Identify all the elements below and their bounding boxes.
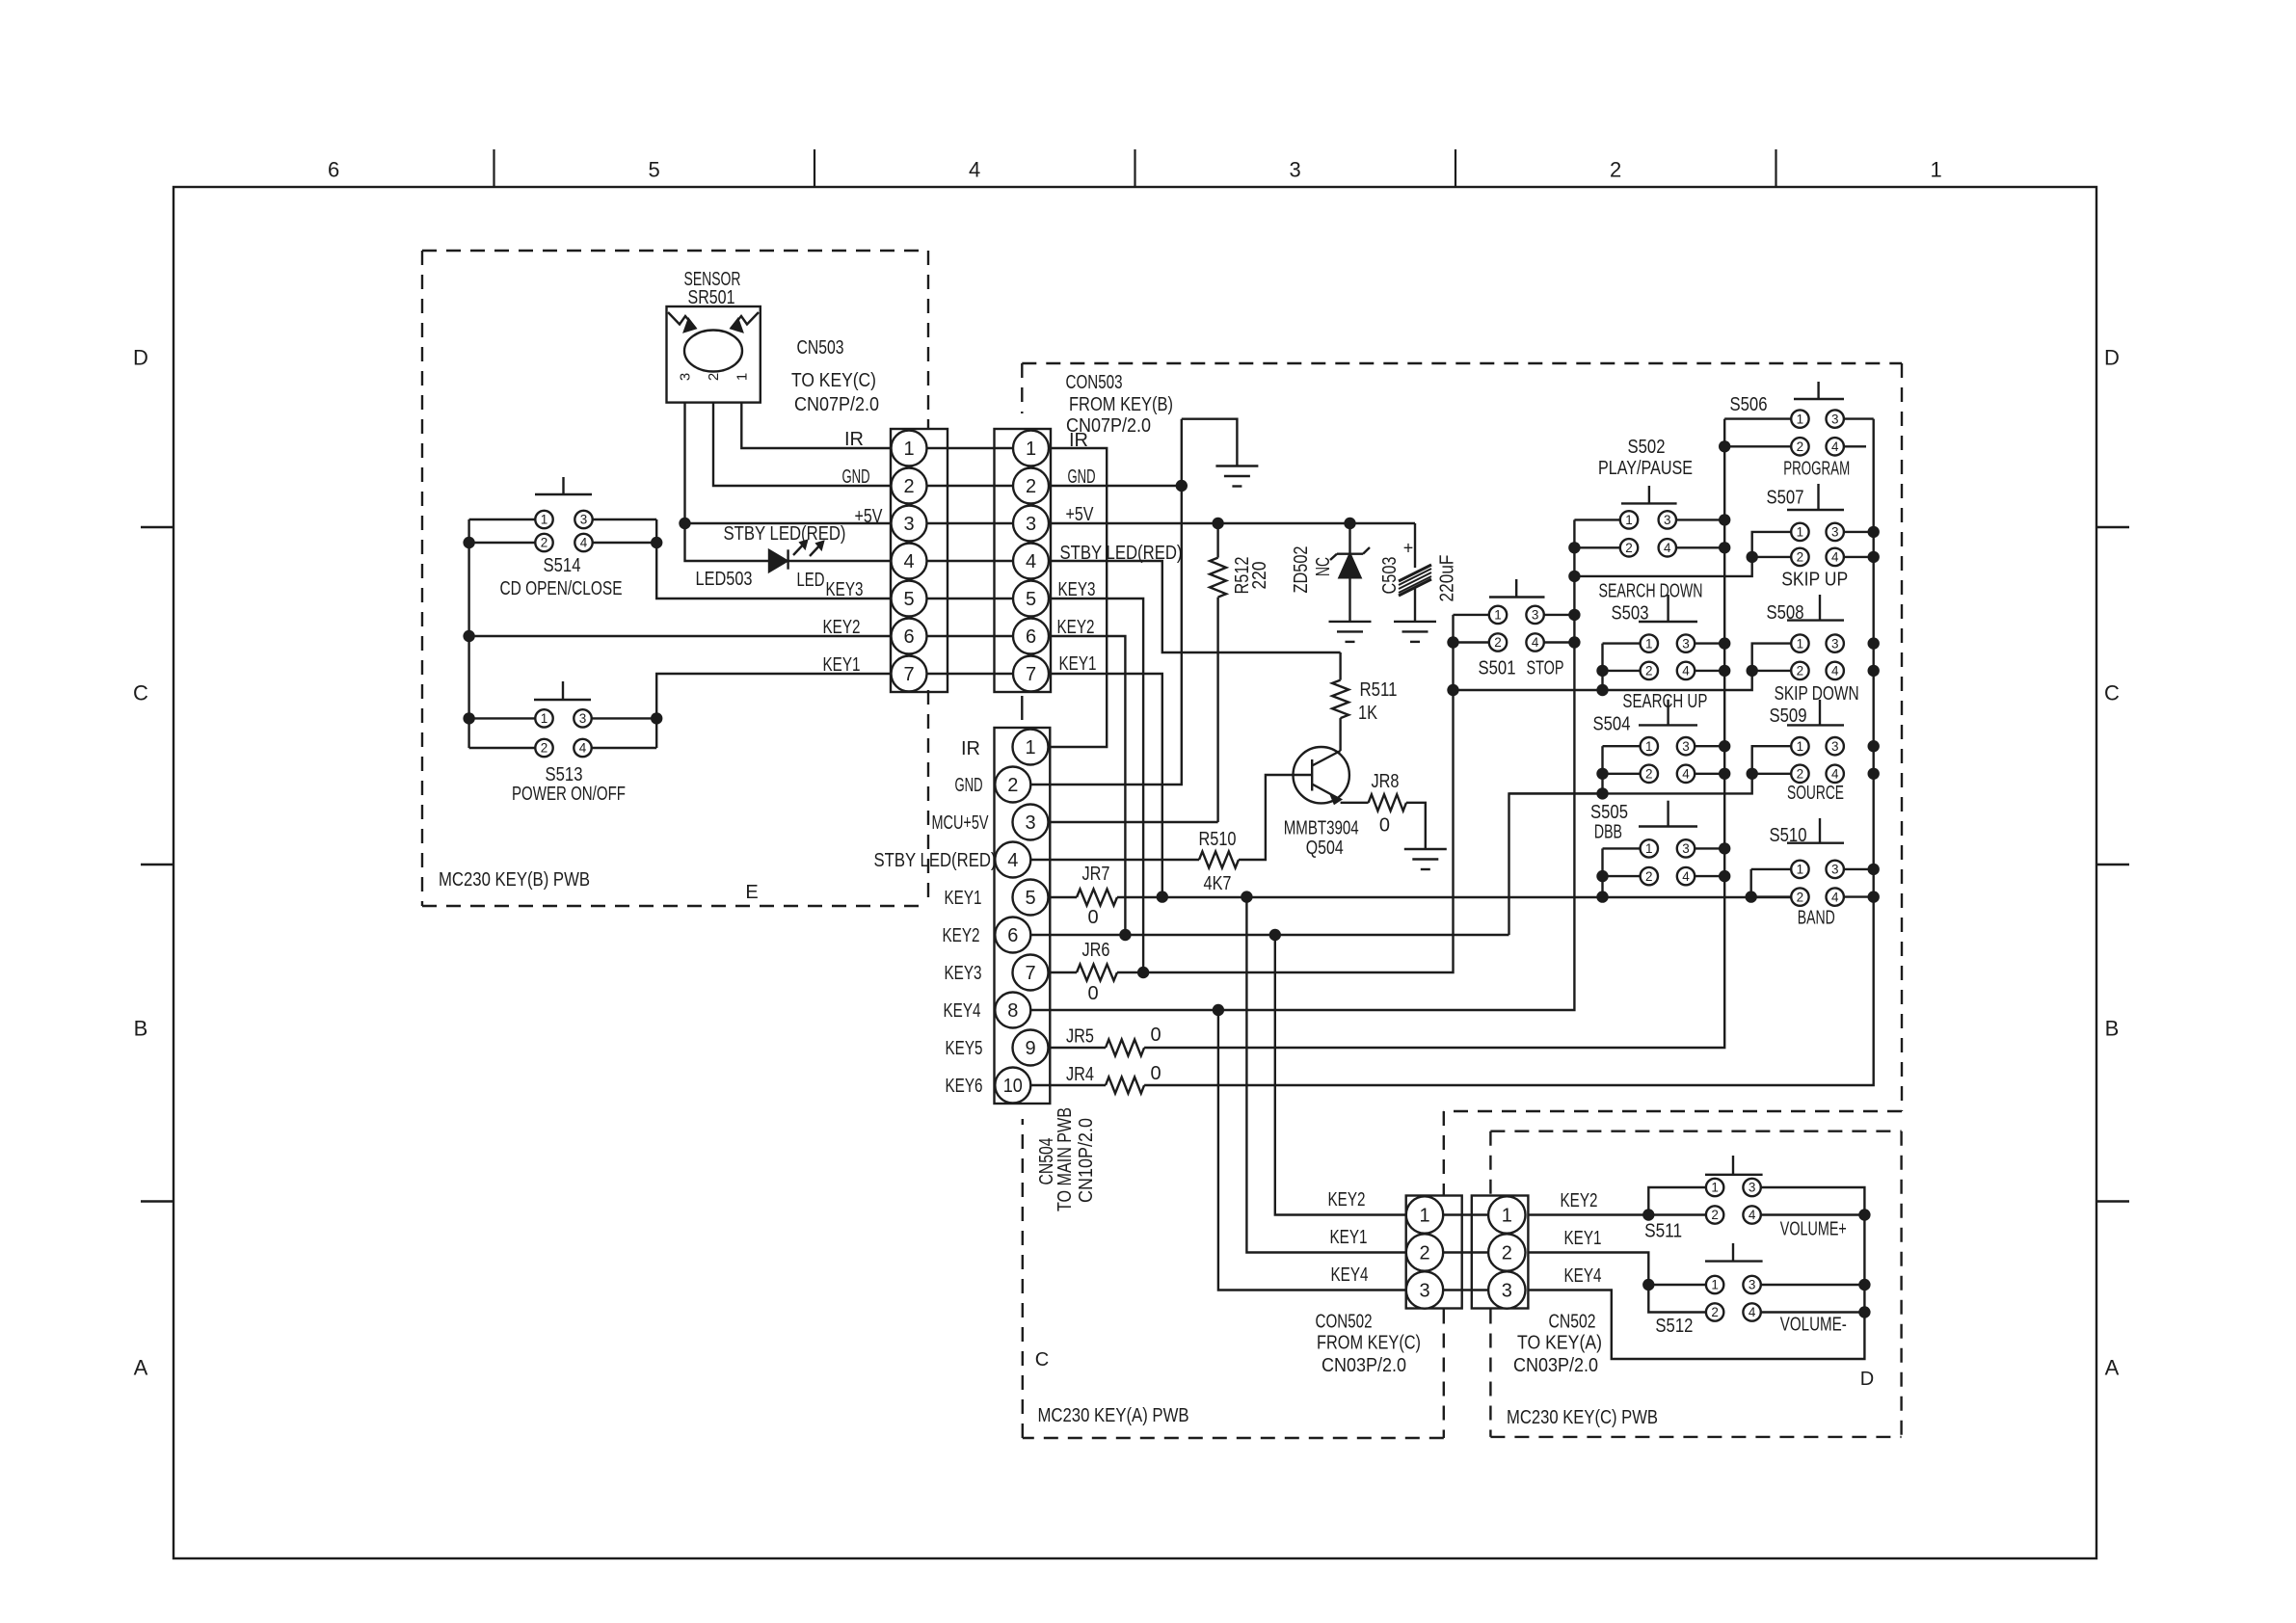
svg-text:0: 0 (1087, 983, 1098, 1004)
nodes KEY2 row (1119, 929, 1131, 941)
wire KEY1 CN503.7 to S513 (656, 674, 891, 718)
switch S511 VOLUME+ (1705, 1156, 1763, 1224)
svg-text:PROGRAM: PROGRAM (1783, 458, 1850, 479)
svg-text:4: 4 (1749, 1305, 1756, 1319)
svg-text:STOP: STOP (1527, 658, 1564, 679)
svg-text:PLAY/PAUSE: PLAY/PAUSE (1598, 458, 1693, 479)
switch S510 BAND (1787, 818, 1844, 906)
svg-text:3: 3 (1749, 1278, 1756, 1292)
svg-text:B: B (134, 1017, 148, 1041)
connector CN504 (995, 728, 1051, 1104)
svg-text:C: C (2104, 681, 2120, 705)
svg-text:4: 4 (1831, 890, 1839, 904)
resistor JR5 0 (1049, 1024, 1161, 1056)
svg-text:B: B (2105, 1017, 2120, 1041)
svg-text:JR5: JR5 (1066, 1026, 1094, 1048)
wires CON502-CN502 mating rows (1443, 1215, 1488, 1290)
svg-text:KEY4: KEY4 (1564, 1265, 1602, 1287)
svg-text:1: 1 (1797, 739, 1804, 754)
svg-text:4: 4 (579, 741, 587, 756)
svg-text:1: 1 (1797, 412, 1804, 426)
wire S514 right rail (655, 519, 657, 543)
svg-text:IR: IR (844, 429, 864, 450)
transistor Q504 MMBT3904 (1284, 747, 1359, 859)
svg-text:1: 1 (1502, 1205, 1512, 1226)
svg-text:1: 1 (1025, 737, 1035, 758)
svg-text:VOLUME-: VOLUME- (1780, 1315, 1847, 1336)
svg-text:1: 1 (1645, 841, 1653, 856)
svg-text:LED: LED (797, 570, 825, 591)
wire KEY1 CON503.7 down (1049, 674, 1162, 897)
svg-text:3: 3 (903, 514, 914, 535)
svg-text:S502: S502 (1628, 437, 1666, 458)
wire +5V CON503.3 rail (1049, 522, 1415, 524)
wire S502/S507 row (1574, 532, 1791, 576)
svg-text:SKIP UP: SKIP UP (1781, 570, 1848, 591)
svg-text:0: 0 (1087, 907, 1098, 928)
svg-text:1: 1 (1645, 739, 1653, 754)
resistor JR6 0 (1049, 940, 1117, 1004)
svg-text:S501: S501 (1479, 658, 1516, 679)
wire KEY6 row (JR4 output) (1144, 419, 1874, 1085)
svg-text:JR7: JR7 (1082, 864, 1110, 885)
node KEY3/JR6 (1137, 967, 1149, 978)
svg-text:2: 2 (1645, 664, 1653, 678)
svg-text:4: 4 (1831, 439, 1839, 454)
svg-text:0: 0 (1379, 814, 1390, 836)
svg-text:4: 4 (969, 158, 980, 182)
svg-text:C: C (1035, 1349, 1049, 1370)
svg-text:JR6: JR6 (1082, 940, 1110, 961)
node +5V / LED junction (679, 518, 690, 529)
svg-text:1: 1 (1797, 525, 1804, 540)
svg-text:KEY3: KEY3 (826, 579, 864, 600)
svg-text:S507: S507 (1767, 488, 1804, 509)
svg-text:KEY1: KEY1 (1564, 1228, 1602, 1249)
connector CN503 (891, 429, 948, 692)
svg-text:BAND: BAND (1798, 908, 1835, 929)
wire S505 jog pins 1,2 to KEY1 row (1603, 847, 1641, 849)
wire KEY5 row (JR5 output) (1144, 419, 1724, 1048)
svg-text:3: 3 (1682, 636, 1690, 651)
svg-text:4K7: 4K7 (1204, 873, 1232, 894)
svg-text:2: 2 (1797, 890, 1804, 904)
svg-text:2: 2 (1645, 767, 1653, 782)
switch S504 SEARCH UP (1639, 700, 1697, 783)
svg-text:6: 6 (903, 626, 914, 648)
nodes KEY4 column (1568, 609, 1580, 621)
svg-text:D: D (2104, 346, 2120, 370)
svg-text:MC230 KEY(C) PWB: MC230 KEY(C) PWB (1507, 1407, 1658, 1428)
wire KEY4 to CON502.3 (1218, 1010, 1406, 1290)
svg-text:GND: GND (1068, 466, 1096, 488)
svg-text:S509: S509 (1770, 705, 1807, 727)
wire LED cathode to CN503.4 (788, 560, 892, 562)
svg-text:KEY6: KEY6 (946, 1076, 983, 1097)
svg-text:CN03P/2.0: CN03P/2.0 (1322, 1355, 1406, 1376)
svg-text:2: 2 (1007, 775, 1018, 796)
svg-text:2: 2 (541, 536, 548, 550)
svg-text:S513: S513 (546, 764, 583, 785)
LED LED503 (769, 541, 823, 572)
svg-text:C: C (133, 681, 148, 705)
svg-text:2: 2 (1610, 158, 1621, 182)
wire S512 pin1 (1648, 1284, 1706, 1286)
svg-text:5: 5 (1026, 589, 1036, 610)
node S507 jog (1747, 551, 1758, 563)
wire STBY LED(RED) CON503.4 to R511 (1049, 561, 1341, 652)
nodes KEY5 column (1719, 514, 1730, 525)
svg-text:9: 9 (1025, 1038, 1035, 1059)
wire R512 to CN504.3 MCU+5V (1049, 821, 1218, 823)
svg-text:FROM KEY(C): FROM KEY(C) (1317, 1332, 1421, 1353)
svg-text:3: 3 (1831, 412, 1839, 426)
wire S503 jog pins 1,2 (1603, 642, 1641, 644)
svg-text:0: 0 (1150, 1063, 1161, 1084)
svg-text:2: 2 (1797, 439, 1804, 454)
resistor JR8 0 (1341, 771, 1426, 849)
svg-text:+: + (1403, 539, 1414, 558)
svg-text:R510: R510 (1199, 829, 1237, 850)
wire KEY4 row CN504.8 (1030, 519, 1574, 1010)
svg-text:3: 3 (1682, 739, 1690, 754)
svg-text:KEY1: KEY1 (945, 888, 982, 909)
nodes S504 jog (1596, 768, 1608, 780)
svg-text:10: 10 (1003, 1076, 1023, 1097)
wire KEY2 riser to S504/S509 row (1509, 793, 1603, 935)
svg-text:1: 1 (1494, 608, 1502, 623)
svg-text:3: 3 (1682, 841, 1690, 856)
svg-text:JR8: JR8 (1372, 771, 1400, 792)
svg-text:KEY1: KEY1 (823, 654, 861, 676)
wire KEY2 rail to CN503.6 (469, 635, 892, 637)
connector CON502 (1406, 1196, 1462, 1309)
svg-text:1: 1 (1645, 636, 1653, 651)
switch S507 SKIP UP (1787, 484, 1844, 566)
svg-text:4: 4 (1682, 767, 1690, 782)
svg-text:S505: S505 (1590, 802, 1628, 823)
svg-text:S514: S514 (544, 555, 581, 576)
svg-text:KEY4: KEY4 (944, 1000, 981, 1022)
node KEY4 row (1213, 1004, 1224, 1016)
wire KEY3 row (JR6 output) (1117, 615, 1454, 972)
sensor SR501 (667, 269, 761, 403)
svg-text:1: 1 (1625, 513, 1633, 527)
svg-text:4: 4 (1831, 664, 1839, 678)
svg-text:GND: GND (955, 775, 983, 796)
svg-text:220: 220 (1249, 562, 1270, 590)
svg-text:2: 2 (1711, 1305, 1719, 1319)
svg-text:S508: S508 (1767, 602, 1804, 624)
wire S509 pin2 (1752, 773, 1792, 775)
svg-text:KEY3: KEY3 (945, 963, 982, 984)
wire S502 pins 1,2 to KEY4 column (1574, 519, 1619, 520)
wire KEY1 row (JR7 output) (1117, 896, 1792, 898)
svg-text:6: 6 (1026, 626, 1036, 648)
switch S512 VOLUME- (1705, 1243, 1763, 1321)
wire S503 pins 3,4 to KEY5 column (1695, 642, 1724, 644)
connector mating tick CON503/CN504 (1021, 696, 1023, 720)
svg-text:CN10P/2.0: CN10P/2.0 (1076, 1118, 1097, 1203)
svg-text:4: 4 (1532, 635, 1539, 650)
svg-text:3: 3 (1664, 513, 1671, 527)
wire S506 pins 1,2 to KEY5 column (1724, 417, 1791, 419)
svg-text:4: 4 (903, 551, 914, 572)
svg-text:1: 1 (903, 439, 914, 460)
svg-text:7: 7 (903, 664, 914, 685)
svg-text:3: 3 (579, 711, 587, 726)
svg-text:1: 1 (1797, 863, 1804, 877)
svg-text:1: 1 (1930, 158, 1941, 182)
svg-text:+5V: +5V (855, 506, 884, 527)
svg-text:1: 1 (734, 373, 751, 381)
wire S510 pin2 from KEY1 row (1751, 895, 1792, 897)
wires CN503-CON503 mating rows (927, 448, 1014, 674)
svg-text:2: 2 (1026, 476, 1036, 497)
svg-text:MC230 KEY(B) PWB: MC230 KEY(B) PWB (439, 869, 590, 891)
svg-text:LED503: LED503 (696, 569, 753, 590)
wire S505 pins 3,4 to KEY5 column (1695, 847, 1724, 849)
svg-text:2: 2 (1797, 550, 1804, 565)
wire S510 jog pins 1,2 to KEY1 row (1751, 868, 1792, 870)
ground (ZD502) (1329, 621, 1372, 623)
svg-text:1: 1 (1797, 636, 1804, 651)
svg-text:D: D (133, 346, 148, 370)
svg-text:3: 3 (1749, 1181, 1756, 1195)
ground (JR8 / Q504 emitter) (1404, 848, 1447, 850)
svg-text:KEY2: KEY2 (1057, 617, 1095, 638)
svg-text:3: 3 (580, 513, 588, 527)
svg-text:3: 3 (1831, 636, 1839, 651)
svg-text:KEY2: KEY2 (1328, 1189, 1366, 1211)
switch S501 STOP (1489, 579, 1545, 652)
ground (GND net) (1215, 465, 1258, 466)
wire S504/S509/KEY2 row (1509, 746, 1792, 793)
wire KEY1 CN502.2 to S512 jog (1528, 1253, 1706, 1313)
svg-text:4: 4 (1749, 1208, 1756, 1222)
svg-text:1: 1 (541, 513, 548, 527)
wire S501 pins 3,4 to KEY4 column (1544, 614, 1575, 616)
svg-text:3: 3 (1831, 525, 1839, 540)
svg-text:KEY4: KEY4 (1331, 1264, 1369, 1286)
svg-text:S503: S503 (1612, 602, 1649, 624)
wire S508 pin2 (1752, 670, 1792, 672)
wire S502 pins 3,4 to KEY5 column (1676, 519, 1724, 520)
svg-text:5: 5 (903, 589, 914, 610)
wire GND CON503.2 to CN504.2 and ground (1049, 485, 1182, 487)
svg-text:2: 2 (1502, 1242, 1512, 1264)
switch S514 CD OPEN/CLOSE (535, 477, 593, 551)
svg-text:ZD502: ZD502 (1291, 546, 1312, 594)
node S511 jog (1642, 1209, 1654, 1220)
nodes KEY6 column (1868, 526, 1880, 538)
svg-text:TO KEY(C): TO KEY(C) (791, 370, 876, 391)
svg-text:KEY2: KEY2 (823, 617, 861, 638)
svg-text:3: 3 (1831, 863, 1839, 877)
node GND junction (1176, 480, 1188, 492)
svg-text:1K: 1K (1358, 703, 1378, 724)
wire sensor pin3 to +5V rail / CN503.3 (685, 403, 892, 523)
wire S513 pins (469, 717, 536, 719)
switch S508 SKIP DOWN (1787, 595, 1844, 679)
switch S502 PLAY/PAUSE (1620, 486, 1677, 557)
svg-text:KEY1: KEY1 (1059, 653, 1097, 675)
svg-text:5: 5 (1025, 888, 1035, 909)
svg-text:Q504: Q504 (1306, 838, 1344, 859)
wire S507 pins 3,4 to KEY6 column (1844, 531, 1874, 533)
svg-text:7: 7 (1026, 664, 1036, 685)
switch S509 SOURCE (1787, 700, 1844, 783)
wire KEY2 row CN504.6 (1030, 934, 1508, 936)
svg-text:4: 4 (1682, 869, 1690, 884)
wire KEY1 to CON502.2 (1246, 897, 1405, 1253)
svg-text:MCU+5V: MCU+5V (932, 812, 989, 834)
svg-text:3: 3 (1025, 812, 1035, 834)
wire sensor pin1 to CN503.1 (IR) (741, 403, 891, 448)
svg-text:7: 7 (1025, 963, 1035, 984)
svg-text:2: 2 (1419, 1242, 1429, 1264)
svg-text:CN03P/2.0: CN03P/2.0 (1513, 1355, 1598, 1376)
svg-text:NC: NC (1313, 557, 1334, 576)
svg-text:IR: IR (961, 738, 980, 759)
svg-text:TO MAIN PWB: TO MAIN PWB (1055, 1107, 1076, 1211)
wire S501 left rail to KEY3 (1454, 614, 1490, 616)
svg-text:SEARCH UP: SEARCH UP (1622, 691, 1707, 712)
svg-text:3: 3 (1831, 739, 1839, 754)
svg-text:CN502: CN502 (1549, 1311, 1596, 1332)
svg-text:MMBT3904: MMBT3904 (1284, 817, 1359, 838)
svg-text:220uF: 220uF (1437, 555, 1458, 602)
resistor R512 220 (1210, 523, 1270, 822)
svg-text:3: 3 (1289, 158, 1300, 182)
nodes S503 jog (1596, 665, 1608, 677)
svg-text:CN07P/2.0: CN07P/2.0 (794, 394, 879, 415)
svg-text:1: 1 (541, 711, 548, 726)
resistor JR7 0 (1049, 864, 1117, 928)
svg-text:E: E (745, 882, 758, 903)
svg-text:S504: S504 (1593, 713, 1631, 734)
svg-text:3: 3 (1419, 1280, 1429, 1301)
svg-text:2: 2 (1645, 869, 1653, 884)
switch S506 PROGRAM (1791, 382, 1844, 455)
svg-text:STBY LED(RED): STBY LED(RED) (724, 523, 846, 545)
resistor JR4 0 (1030, 1063, 1161, 1094)
svg-text:GND: GND (842, 466, 870, 488)
wire sensor pin2 to CN503.2 (GND) (713, 403, 892, 486)
svg-text:1: 1 (1419, 1205, 1429, 1226)
svg-text:KEY2: KEY2 (943, 925, 980, 946)
connector CN502 (1472, 1196, 1529, 1309)
wire S506 pin4 stub (1844, 445, 1866, 447)
svg-text:2: 2 (1797, 767, 1804, 782)
PWB outline MC230 KEY(A) (1022, 363, 1902, 1438)
svg-text:CN503: CN503 (797, 337, 844, 359)
svg-text:VOLUME+: VOLUME+ (1780, 1219, 1847, 1240)
svg-text:S510: S510 (1770, 825, 1807, 846)
svg-text:4: 4 (1831, 550, 1839, 565)
nodes VOLUME right column (1858, 1209, 1870, 1220)
svg-text:3: 3 (1026, 514, 1036, 535)
svg-text:6: 6 (1007, 925, 1018, 946)
svg-text:DBB: DBB (1594, 821, 1622, 842)
wire KEY2 CN502.1 to S511 (1528, 1213, 1706, 1215)
svg-text:S511: S511 (1644, 1221, 1682, 1242)
switch S503 SEARCH DOWN (1639, 595, 1697, 679)
wire KEY3 S514 to CN503.5 (656, 543, 891, 599)
resistor R511 1K (1332, 652, 1397, 751)
svg-text:CON503: CON503 (1066, 372, 1123, 393)
svg-text:2: 2 (1711, 1208, 1719, 1222)
connector CON503 (995, 429, 1052, 692)
switch S513 POWER ON/OFF (534, 681, 592, 757)
wire S511 pin1 jog (1648, 1187, 1706, 1215)
svg-text:4: 4 (1831, 767, 1839, 782)
svg-text:A: A (2105, 1356, 2120, 1380)
wire S510 pins 3,4 to KEY6 column (1844, 868, 1874, 870)
svg-text:CON502: CON502 (1316, 1311, 1373, 1332)
svg-text:+5V: +5V (1066, 504, 1095, 525)
svg-text:R511: R511 (1360, 679, 1398, 701)
svg-text:2: 2 (1494, 635, 1502, 650)
wire +5V to LED anode (685, 523, 770, 561)
svg-text:1: 1 (1711, 1278, 1719, 1292)
wire KEY2 CON503.6 down (1049, 636, 1125, 935)
svg-text:2: 2 (1797, 664, 1804, 678)
zener ZD502 (NC) (1291, 523, 1370, 622)
svg-text:5: 5 (648, 158, 659, 182)
svg-text:JR4: JR4 (1066, 1064, 1094, 1085)
wire S506 pin3 to KEY6 column (1844, 417, 1874, 419)
svg-text:2: 2 (1625, 541, 1633, 555)
svg-text:3: 3 (678, 373, 694, 381)
wire S503/S508/S501 row (1454, 644, 1792, 690)
wire KEY3 CON503.5 down (1049, 599, 1143, 972)
svg-text:3: 3 (1532, 608, 1539, 623)
wire IR CON503.1 to CN504.1 (1049, 448, 1108, 747)
node S512 jog (1642, 1279, 1654, 1290)
svg-text:MC230 KEY(A) PWB: MC230 KEY(A) PWB (1038, 1405, 1189, 1426)
svg-text:SOURCE: SOURCE (1787, 783, 1844, 804)
svg-text:1: 1 (1026, 439, 1036, 460)
svg-text:4: 4 (1682, 664, 1690, 678)
svg-text:3: 3 (1502, 1280, 1512, 1301)
nodes S501 rail (1447, 636, 1458, 648)
svg-text:A: A (134, 1356, 148, 1380)
wire S514 left rail (467, 519, 469, 748)
capacitor C503 220uF (1379, 523, 1458, 622)
svg-text:2: 2 (541, 741, 548, 756)
wire KEY2 to CON502.1 (1275, 935, 1406, 1215)
switch S505 DBB (1639, 801, 1697, 886)
wire S504 pins 3,4 to KEY5 column (1695, 745, 1724, 747)
wire KEY4 CN502.3 bottom route (1528, 1187, 1865, 1359)
wire S512 pins 3,4 to right column (1761, 1284, 1865, 1286)
nodes KEY1 row (1157, 891, 1168, 902)
svg-text:POWER ON/OFF: POWER ON/OFF (512, 784, 626, 805)
svg-text:FROM KEY(B): FROM KEY(B) (1069, 394, 1173, 415)
svg-text:0: 0 (1150, 1024, 1161, 1046)
node S514 rail junctions (463, 537, 474, 548)
svg-text:SKIP DOWN: SKIP DOWN (1775, 683, 1859, 705)
svg-text:2: 2 (706, 373, 722, 381)
svg-text:SR501: SR501 (688, 287, 735, 308)
svg-text:4: 4 (1664, 541, 1671, 555)
svg-text:KEY3: KEY3 (1058, 579, 1096, 600)
svg-text:1: 1 (1711, 1181, 1719, 1195)
svg-text:4: 4 (580, 536, 588, 550)
svg-text:S512: S512 (1655, 1316, 1693, 1337)
resistor R510 4K7 (1030, 775, 1294, 894)
